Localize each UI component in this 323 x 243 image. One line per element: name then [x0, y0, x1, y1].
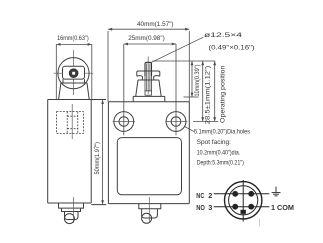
svg-text:28.5±1mm(1.12"): 28.5±1mm(1.12")	[205, 66, 211, 125]
svg-text:25mm(0.98"): 25mm(0.98")	[128, 35, 165, 42]
dashed hidden mounting block	[57, 112, 84, 134]
collar with ears	[137, 71, 160, 76]
head vertical centerline	[73, 50, 75, 95]
bottom connector left view	[59, 203, 84, 208]
svg-text:10.2mm(0.40")dia.: 10.2mm(0.40")dia.	[197, 150, 241, 157]
rotated dim texts	[195, 65, 227, 125]
svg-text:NC: NC	[196, 191, 205, 200]
svg-text:COM: COM	[277, 203, 294, 212]
svg-text:2: 2	[208, 191, 212, 200]
svg-text:Depth:5.3mm(0.21"): Depth:5.3mm(0.21")	[197, 160, 244, 167]
dim line 25mm	[124, 43, 176, 136]
bellows sides	[59, 83, 90, 100]
svg-text:ø12.5×4: ø12.5×4	[204, 32, 243, 39]
roller bracket	[63, 66, 85, 79]
leader to hole note	[185, 127, 195, 132]
dim text 40mm	[137, 21, 174, 28]
shaft neck	[142, 76, 153, 80]
boss ledge	[133, 96, 165, 101]
roller circle	[58, 58, 89, 89]
body rect	[108, 102, 189, 204]
roller axle horizontal centerline	[54, 72, 94, 74]
dim line operating position	[213, 61, 216, 121]
svg-text:Spot facing:: Spot facing:	[197, 139, 231, 146]
faint artifact line	[259, 219, 261, 227]
centerline through dashed block	[71, 104, 73, 139]
svg-text:5.1mm(0.20")Dia.holes: 5.1mm(0.20")Dia.holes	[194, 128, 250, 135]
svg-text:40mm(1.57"): 40mm(1.57")	[137, 21, 174, 28]
svg-text:10mm(0.39"): 10mm(0.39")	[195, 65, 201, 97]
labels	[196, 191, 294, 212]
inner circle	[229, 186, 258, 215]
hole note text block	[194, 128, 250, 166]
body rectangle	[48, 100, 91, 204]
extension lines 16mm	[55, 44, 57, 99]
dim line 28.5	[201, 61, 204, 121]
left mounting hole	[113, 112, 136, 132]
plunger centerline	[147, 57, 149, 95]
operating position ext line B	[184, 96, 199, 98]
outer circle	[225, 182, 262, 219]
svg-text:Operating position: Operating position	[220, 66, 226, 123]
svg-text:50mm(1.97"): 50mm(1.97")	[94, 142, 101, 175]
dim text 16mm	[57, 35, 89, 42]
roller inner lines	[147, 64, 150, 91]
dim line 50mm	[101, 100, 104, 205]
axle knurled hub	[69, 69, 78, 78]
vertical centerline	[242, 180, 244, 222]
hole centerline extensions	[123, 44, 125, 135]
dim line 40mm	[108, 28, 189, 102]
svg-text:1: 1	[271, 203, 275, 212]
NO row line	[214, 206, 270, 208]
50mm text	[94, 142, 101, 175]
hidden inner column	[145, 76, 152, 95]
lever base sides	[63, 79, 85, 83]
bottom connector front view	[139, 204, 161, 209]
roller edge-on	[145, 62, 152, 76]
dim line 10mm	[191, 61, 194, 97]
ext line C hole centerline right	[193, 120, 218, 122]
key notch	[241, 210, 246, 214]
svg-text:3: 3	[208, 203, 212, 212]
lever base shelf	[61, 82, 87, 84]
leader to roller dia note	[152, 37, 204, 62]
pins	[232, 191, 254, 214]
svg-text:NO: NO	[196, 203, 205, 212]
dim line 16mm	[56, 43, 92, 100]
roller dia note	[204, 32, 255, 51]
svg-text:16mm(0.63"): 16mm(0.63")	[57, 35, 89, 42]
right mounting hole	[165, 112, 187, 132]
cover plate	[117, 138, 181, 195]
dim text 25mm	[128, 35, 165, 42]
free position ext line A	[153, 60, 216, 62]
ground symbol	[272, 187, 281, 196]
bellows	[136, 80, 162, 96]
NC row line	[214, 193, 270, 195]
svg-text:(0.49"×0.16"): (0.49"×0.16")	[209, 44, 255, 51]
